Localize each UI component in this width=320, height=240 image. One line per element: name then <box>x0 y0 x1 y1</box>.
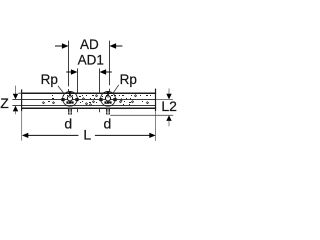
pipe body top edge <box>21 92 156 94</box>
svg-text:d: d <box>104 116 112 132</box>
AD1 right arrow <box>100 69 107 74</box>
L dim line left segment <box>28 134 79 136</box>
L extension left <box>21 111 23 140</box>
inner ring <box>105 96 110 101</box>
pipe inner line B <box>21 105 156 107</box>
Z up arrow <box>13 106 18 112</box>
svg-text:AD1: AD1 <box>78 52 104 67</box>
svg-text:Z: Z <box>0 95 9 111</box>
lower blob <box>66 101 73 103</box>
svg-text:L: L <box>83 127 91 143</box>
AD extension line left <box>68 41 70 87</box>
Z dim line upper <box>15 86 17 94</box>
pipe bottom edge <box>21 107 156 109</box>
Rp leader right <box>113 85 118 93</box>
side blob left <box>99 98 102 99</box>
L2 up arrow <box>166 115 171 121</box>
side blob left <box>61 98 64 99</box>
side blob right <box>75 98 78 99</box>
pipe left end <box>21 89 23 111</box>
L2 dim line upper <box>168 89 170 95</box>
press stub below pipe <box>106 109 110 115</box>
stipple dots <box>42 95 151 106</box>
Z down arrow <box>13 94 18 100</box>
outer circle <box>101 91 116 106</box>
nipple-ring connector <box>107 94 109 96</box>
fitting 1 <box>61 91 78 114</box>
top nipple <box>69 91 72 94</box>
lower blob <box>104 101 111 103</box>
L2 extension top <box>156 99 173 101</box>
svg-text:d: d <box>64 116 72 132</box>
svg-text:AD: AD <box>80 37 99 52</box>
nipple-ring connector <box>69 94 71 96</box>
fitting 2 <box>99 91 116 114</box>
top nipple <box>107 91 110 94</box>
AD1 dim line left tail <box>66 71 72 73</box>
svg-text:Rp: Rp <box>41 72 58 87</box>
ring top tick <box>107 97 110 98</box>
AD dim line right tail <box>115 45 122 47</box>
AD1 tick below pipe left <box>77 109 79 113</box>
svg-text:L2: L2 <box>161 98 177 114</box>
L dim line right segment <box>95 134 150 136</box>
pipe right end <box>155 89 157 112</box>
AD1 extension line left <box>77 68 79 93</box>
AD1 extension line right <box>99 68 101 93</box>
inner ring <box>67 96 72 101</box>
AD1 dim line right tail <box>106 71 112 73</box>
L extension right <box>155 111 157 141</box>
L2 dim line lower <box>168 121 170 127</box>
L2 down arrow <box>166 94 171 100</box>
top edge stub left <box>18 92 21 94</box>
AD extension line right <box>109 41 111 86</box>
AD1 left arrow <box>71 69 78 74</box>
side blob right <box>113 98 116 99</box>
press stub below pipe <box>68 109 72 115</box>
AD dim line left tail <box>55 45 63 47</box>
pipe inner line A <box>21 99 156 101</box>
ring top tick <box>69 97 72 98</box>
outer circle <box>63 91 78 106</box>
svg-text:Rp: Rp <box>120 72 137 87</box>
Rp leader left <box>58 86 65 94</box>
AD right arrow <box>110 43 117 48</box>
AD1 tick below pipe right <box>99 109 101 113</box>
L2 extension bottom <box>110 114 173 116</box>
Z extension line B left <box>12 105 21 107</box>
Z extension line A left <box>12 99 21 101</box>
L left arrow <box>22 133 28 138</box>
Z dim line lower <box>15 111 17 114</box>
L right arrow <box>149 133 155 138</box>
AD left arrow <box>62 43 69 48</box>
